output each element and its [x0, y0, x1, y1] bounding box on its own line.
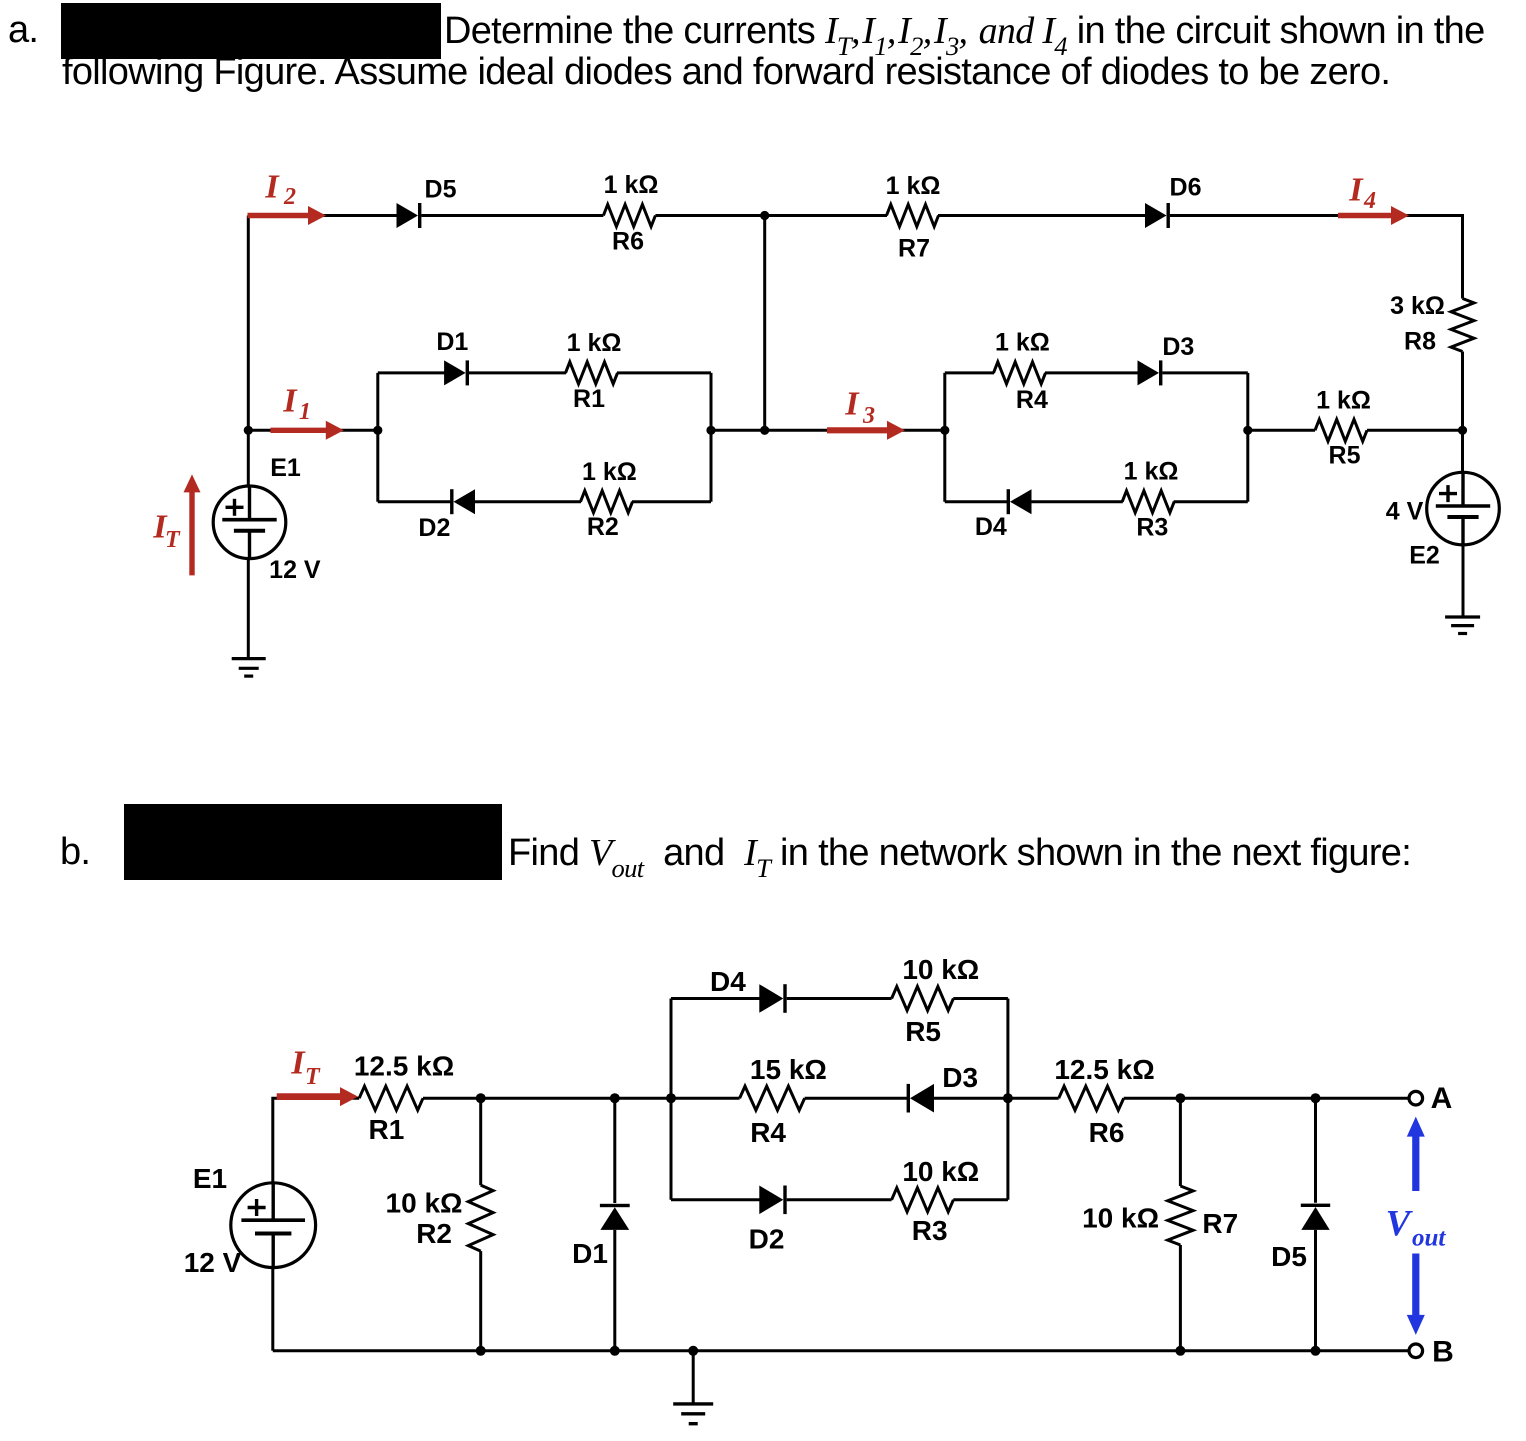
- junction dot: D5 bottom node: [1311, 1346, 1321, 1356]
- ground (circuit a left): [232, 657, 266, 660]
- wire: E1 bottom to bottom rail: [271, 1268, 274, 1351]
- diode D6: [1145, 203, 1167, 228]
- junction dot: box1 left node: [373, 426, 382, 435]
- svg-text:R5: R5: [1329, 442, 1361, 470]
- wire: mid rail box1 to box2: [711, 429, 945, 432]
- svg-text:R6: R6: [612, 228, 644, 256]
- diode D1: [444, 360, 466, 385]
- voltage source E1 (12 V): [213, 486, 286, 559]
- wire: D2 to R3: [787, 1198, 892, 1201]
- svg-text:4: 4: [1363, 188, 1376, 214]
- svg-text:3 kΩ: 3 kΩ: [1390, 292, 1445, 320]
- wire: R4 to diode D3: [1045, 371, 1139, 374]
- junction dot: ground node: [688, 1346, 698, 1356]
- resistor R2: [581, 491, 633, 513]
- ground (circuit b): [673, 1402, 713, 1405]
- svg-text:10 kΩ: 10 kΩ: [902, 954, 979, 985]
- Vout arrow up: [1412, 1135, 1419, 1191]
- current arrow I3: [827, 427, 889, 433]
- wire: mid rail from left rail to box1: [248, 429, 377, 432]
- wire: box bottom branch to diode D2: [671, 1198, 760, 1201]
- svg-text:R7: R7: [1202, 1208, 1238, 1239]
- svg-text:D1: D1: [436, 328, 468, 356]
- svg-text:2: 2: [283, 184, 296, 210]
- wire: D3 to box right: [934, 1097, 1008, 1100]
- junction dot: link node on mid rail: [760, 426, 769, 435]
- wire: E1 positive terminal up the left rail to top: [247, 216, 250, 487]
- junction dot: box1 right node: [706, 426, 715, 435]
- svg-text:10 kΩ: 10 kΩ: [1082, 1202, 1159, 1233]
- redaction box b: [124, 804, 502, 880]
- resistor R6: [603, 205, 655, 227]
- resistor R3: [1122, 491, 1174, 513]
- svg-text:1 kΩ: 1 kΩ: [567, 329, 622, 357]
- svg-text:R6: R6: [1089, 1117, 1125, 1148]
- svg-text:3: 3: [862, 403, 875, 429]
- svg-text:I: I: [290, 1045, 306, 1082]
- diode D2 (pointing left): [454, 489, 476, 514]
- wire: box top branch to diode D4: [671, 997, 760, 1000]
- junction dot: D1 top node: [610, 1093, 620, 1103]
- svg-text:15 kΩ: 15 kΩ: [750, 1054, 827, 1085]
- voltage source E2 (4 V): [1427, 472, 1500, 545]
- svg-text:R8: R8: [1404, 328, 1436, 356]
- svg-text:D3: D3: [942, 1062, 978, 1093]
- current arrow IT (circuit b): [277, 1093, 342, 1100]
- wire: box mid branch to R4: [671, 1097, 740, 1100]
- wire: R3 to box right: [953, 1198, 1008, 1201]
- resistor R2 (vertical 10 kΩ): [479, 1098, 482, 1185]
- svg-text:D5: D5: [425, 176, 457, 204]
- wire: top rail from left corner to diode D5: [248, 214, 396, 217]
- svg-text:E2: E2: [1409, 542, 1440, 570]
- junction dot: D5 top node: [1311, 1093, 1321, 1103]
- current arrow I2: [248, 213, 311, 218]
- problem text a line 2: [62, 51, 1390, 94]
- svg-text:12 V: 12 V: [184, 1247, 242, 1278]
- wire: R4 to diode D3: [805, 1097, 909, 1100]
- wire: parallel box left vertical: [670, 999, 673, 1200]
- wire: E1 up to mid rail and to R1: [273, 1098, 359, 1183]
- wire: bottom rail: [273, 1349, 1409, 1352]
- junction dot: right rail / R5 node: [1458, 426, 1467, 435]
- problem label b.: [60, 831, 90, 874]
- svg-text:1 kΩ: 1 kΩ: [1316, 387, 1371, 415]
- svg-text:D4: D4: [710, 966, 746, 997]
- resistor R8 (vertical): [1451, 299, 1474, 352]
- svg-text:R4: R4: [750, 1117, 786, 1148]
- junction dot: box2 right node: [1243, 426, 1252, 435]
- svg-text:D1: D1: [572, 1238, 608, 1269]
- junction dot: R7 top node: [1175, 1093, 1185, 1103]
- svg-text:R5: R5: [905, 1016, 941, 1047]
- wire: D3 to box2 right vertical: [1162, 371, 1247, 374]
- wire: box2 top branch to R4: [945, 371, 994, 374]
- problem text b: [508, 831, 1411, 875]
- wire: R1 to box1 right vertical: [617, 371, 711, 374]
- diode D4 (circuit b): [759, 984, 783, 1013]
- svg-text:D2: D2: [418, 514, 450, 542]
- wire: box1 bottom branch to diode D2: [378, 500, 452, 503]
- diode D3 (pointing left, circuit b): [910, 1084, 934, 1113]
- wire: D6 to top-right corner and down to R8: [1170, 216, 1463, 299]
- resistor R5 (10 kΩ top branch): [892, 987, 954, 1011]
- wire: box2 bottom branch to diode D4: [945, 500, 1009, 503]
- wire: box2 right vertical: [1246, 373, 1249, 502]
- svg-text:D2: D2: [749, 1224, 785, 1255]
- diode D3: [1138, 360, 1160, 385]
- svg-text:D5: D5: [1271, 1241, 1307, 1272]
- Vout arrow down: [1412, 1254, 1419, 1317]
- wire: box2 left vertical: [943, 373, 946, 502]
- svg-text:R7: R7: [898, 235, 930, 263]
- wire: parallel box right vertical: [1006, 999, 1009, 1200]
- svg-text:10 kΩ: 10 kΩ: [902, 1156, 979, 1187]
- junction dot: top rail / link node: [760, 211, 769, 220]
- ground (circuit a right): [1445, 615, 1480, 618]
- svg-text:1 kΩ: 1 kΩ: [995, 328, 1050, 356]
- svg-text:R3: R3: [912, 1215, 948, 1246]
- resistor R5: [1315, 419, 1367, 441]
- resistor R4: [994, 362, 1046, 384]
- svg-text:R1: R1: [573, 385, 605, 413]
- wire: R6 to terminal A: [1124, 1097, 1409, 1100]
- svg-text:1 kΩ: 1 kΩ: [886, 172, 941, 200]
- junction dot: D1 bottom node: [610, 1346, 620, 1356]
- svg-text:I: I: [1348, 172, 1364, 209]
- svg-text:I: I: [844, 386, 860, 423]
- svg-text:1 kΩ: 1 kΩ: [582, 458, 637, 486]
- diode D1 (vertical, pointing up): [613, 1098, 616, 1203]
- svg-text:R3: R3: [1136, 514, 1168, 542]
- svg-text:12.5 kΩ: 12.5 kΩ: [354, 1051, 454, 1082]
- svg-text:R4: R4: [1016, 386, 1048, 414]
- wire: R6 to node and on to R7: [655, 214, 887, 217]
- wire: R3 to box2 right: [1174, 500, 1248, 503]
- svg-text:10 kΩ: 10 kΩ: [386, 1187, 463, 1218]
- svg-text:1 kΩ: 1 kΩ: [1124, 458, 1179, 486]
- svg-text:12 V: 12 V: [269, 556, 321, 584]
- wire: R2 to box1 right: [632, 500, 711, 503]
- junction dot: left rail mid node: [244, 426, 253, 435]
- junction dot: R2 top node: [476, 1093, 486, 1103]
- resistor R3 (10 kΩ bottom branch): [892, 1188, 954, 1212]
- wire: R5 to right rail: [1367, 429, 1463, 432]
- redaction box a: [61, 3, 441, 59]
- wire: box1 left vertical: [376, 373, 379, 502]
- svg-text:D3: D3: [1162, 333, 1194, 361]
- resistor R1 (12.5 kΩ): [359, 1086, 423, 1110]
- wire: D4 to R3: [1032, 500, 1123, 503]
- svg-text:D4: D4: [975, 513, 1007, 541]
- diode D2 (circuit b): [759, 1186, 783, 1215]
- junction dot: box2 left node: [940, 426, 949, 435]
- problem text a line 1: [444, 9, 1485, 53]
- junction dot: R2 bottom node: [476, 1346, 486, 1356]
- wire: E1 to ground: [247, 559, 250, 659]
- svg-text:E1: E1: [193, 1163, 227, 1194]
- resistor R4 (15 kΩ): [740, 1086, 805, 1110]
- junction dot: box right mid node: [1003, 1093, 1013, 1103]
- current arrow I4: [1338, 213, 1393, 218]
- svg-text:T: T: [305, 1064, 321, 1090]
- wire: D4 to R5: [787, 997, 892, 1000]
- svg-text:B: B: [1432, 1336, 1454, 1369]
- wire: R5 to box right vertical: [953, 997, 1008, 1000]
- wire: R1 to parallel box left: [423, 1097, 671, 1100]
- junction dot: R7 bottom node: [1175, 1346, 1185, 1356]
- diode D5 (vertical, pointing up): [1314, 1098, 1317, 1203]
- svg-text:D6: D6: [1170, 174, 1202, 202]
- resistor R7 (vertical 10 kΩ): [1179, 1098, 1182, 1186]
- wire: box right to R6: [1008, 1097, 1059, 1100]
- svg-text:I: I: [264, 169, 280, 206]
- terminal B: [1409, 1344, 1423, 1358]
- svg-text:4 V: 4 V: [1386, 498, 1424, 526]
- svg-text:V: V: [1386, 1204, 1414, 1245]
- svg-text:R2: R2: [587, 513, 619, 541]
- svg-text:R2: R2: [416, 1218, 452, 1249]
- current arrow I1: [270, 428, 327, 433]
- svg-text:12.5 kΩ: 12.5 kΩ: [1054, 1054, 1154, 1085]
- diode D5: [397, 203, 419, 228]
- problem label a.: [8, 9, 38, 52]
- junction dot: box left mid node: [666, 1093, 676, 1103]
- wire: E2 to ground: [1462, 545, 1465, 617]
- wire: box1 top branch to diode D1: [378, 371, 445, 374]
- svg-text:E1: E1: [270, 454, 301, 482]
- svg-text:out: out: [1412, 1225, 1446, 1252]
- wire: D2 to R2: [475, 500, 581, 503]
- svg-text:A: A: [1431, 1082, 1453, 1115]
- resistor R7: [887, 205, 939, 227]
- wire: R7 to diode D6: [938, 214, 1146, 217]
- svg-text:1 kΩ: 1 kΩ: [604, 171, 659, 199]
- resistor R1: [566, 362, 618, 384]
- wire: D1 to R1: [469, 371, 566, 374]
- svg-text:R1: R1: [369, 1114, 405, 1145]
- svg-text:T: T: [165, 527, 181, 553]
- svg-text:1: 1: [299, 399, 311, 425]
- wire: R8 down to node and E2 top: [1461, 352, 1464, 473]
- voltage source E1 (circuit b, 12 V): [231, 1183, 316, 1268]
- svg-text:I: I: [282, 383, 298, 420]
- wire: vertical link from mid rail up to top rail: [763, 216, 766, 431]
- current arrow IT: [189, 490, 194, 575]
- resistor R6 (12.5 kΩ): [1059, 1086, 1124, 1110]
- wire: box1 right vertical: [710, 373, 713, 502]
- terminal A: [1409, 1091, 1423, 1105]
- wire: D5 to R6: [421, 214, 603, 217]
- wire: mid rail box2 to R5: [1248, 429, 1315, 432]
- diode D4 (pointing left): [1010, 489, 1032, 514]
- wire: ground stem (circuit b): [692, 1351, 695, 1404]
